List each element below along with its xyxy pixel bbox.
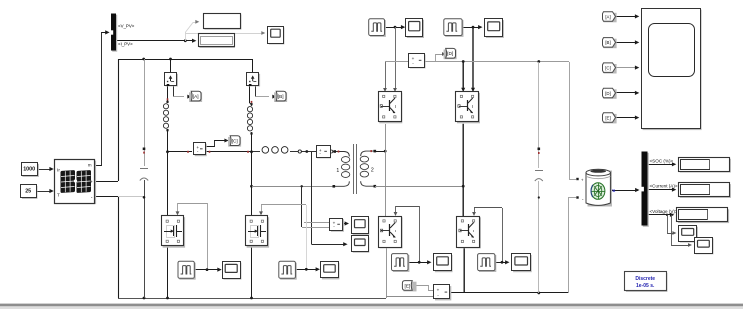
svg-text:<Voltage (V)>: <Voltage (V)> — [650, 209, 678, 214]
svg-text:m: m — [88, 163, 92, 168]
svg-text:25: 25 — [25, 189, 31, 195]
svg-text:[D]: [D] — [447, 51, 453, 56]
svg-text:T: T — [57, 193, 60, 199]
svg-text:[C]: [C] — [605, 65, 611, 70]
svg-text:1: 1 — [336, 168, 339, 174]
svg-text:[E]: [E] — [605, 115, 610, 120]
svg-text:[D]: [D] — [605, 91, 611, 96]
svg-text:Discrete: Discrete — [635, 276, 655, 282]
svg-text:[B]: [B] — [278, 94, 284, 99]
svg-text:<Current (A)>: <Current (A)> — [650, 184, 678, 189]
svg-text:[A]: [A] — [605, 14, 610, 19]
svg-text:1e-05 s.: 1e-05 s. — [636, 283, 655, 289]
svg-text:+: + — [437, 287, 440, 292]
svg-text:1000: 1000 — [23, 167, 35, 173]
svg-text:Ir: Ir — [57, 168, 60, 174]
svg-text:<SOC (%)>: <SOC (%)> — [650, 158, 674, 163]
svg-text:+: + — [581, 178, 584, 183]
svg-text:[C]: [C] — [232, 139, 238, 144]
svg-text:2: 2 — [371, 168, 374, 174]
svg-text:[E]: [E] — [405, 283, 411, 288]
svg-text:<I_PV>: <I_PV> — [118, 41, 133, 46]
svg-text:<V_PV>: <V_PV> — [118, 23, 135, 28]
svg-text:[B]: [B] — [605, 40, 610, 45]
svg-text:-: - — [91, 195, 93, 201]
svg-text:[A]: [A] — [193, 94, 199, 99]
